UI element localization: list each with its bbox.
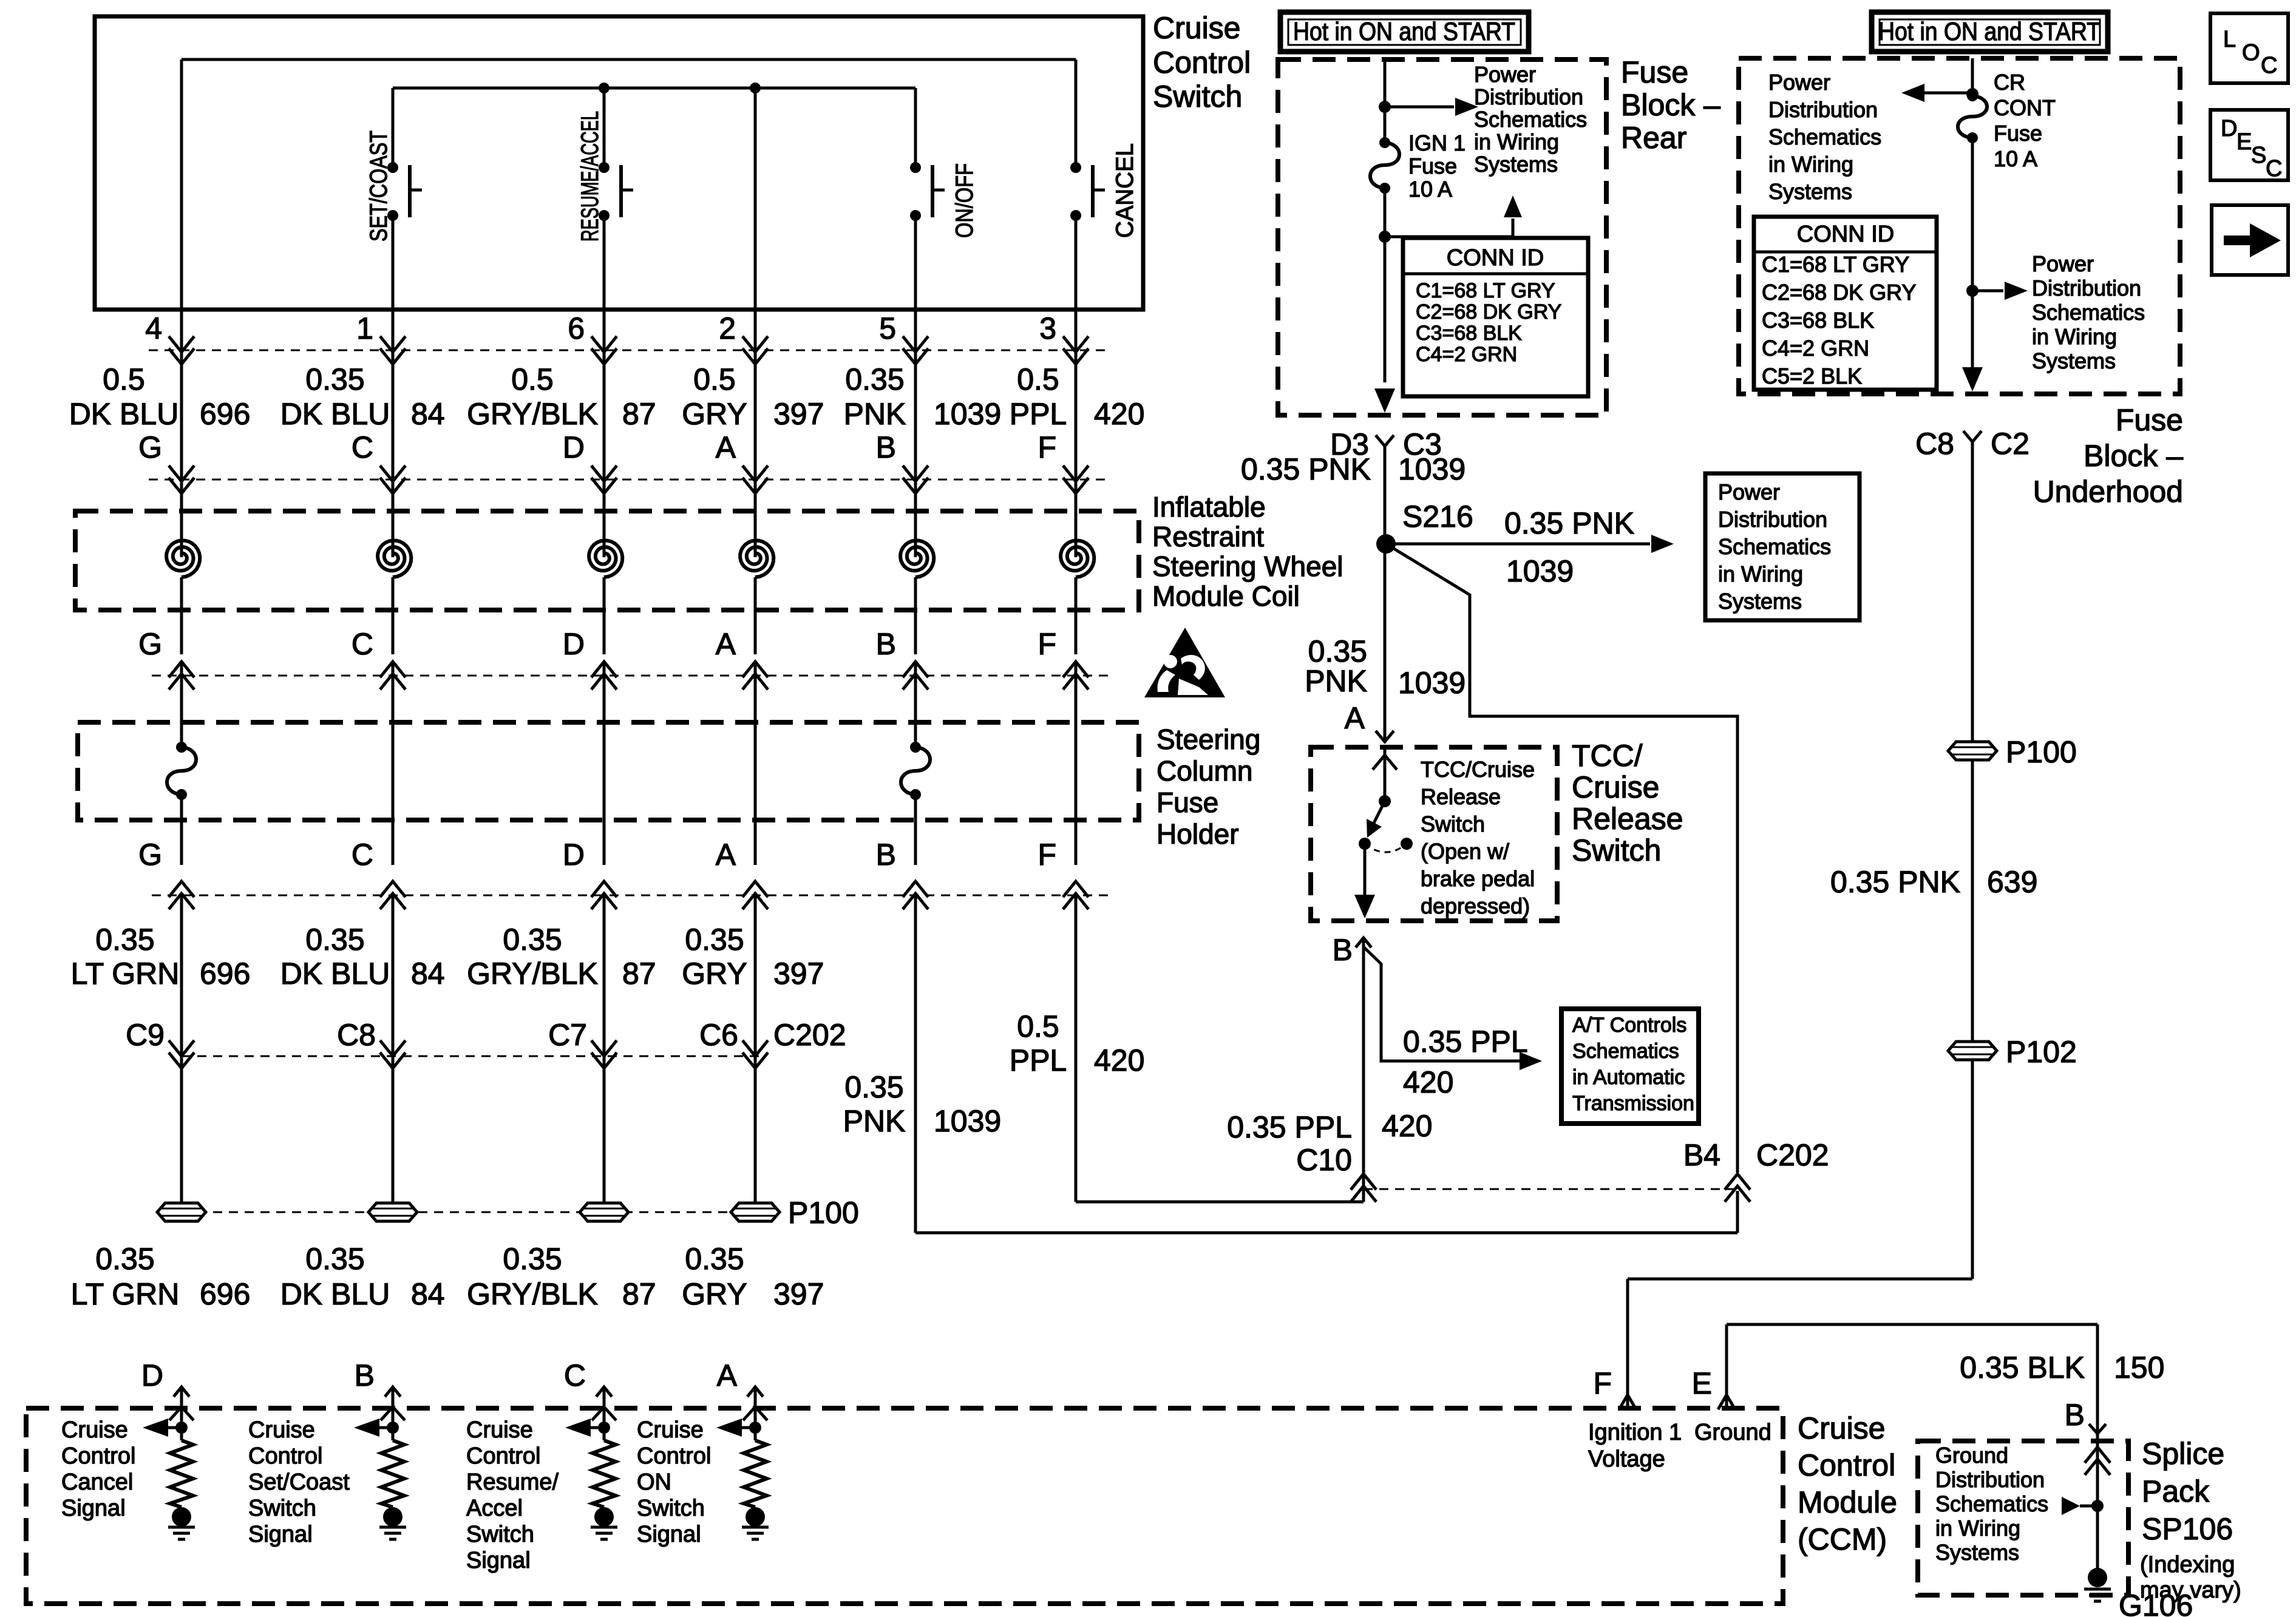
- svg-text:150: 150: [2114, 1351, 2164, 1385]
- svg-text:0.35: 0.35: [305, 923, 364, 957]
- svg-text:A: A: [716, 627, 736, 661]
- svg-text:Hot in ON and START: Hot in ON and START: [1293, 17, 1515, 46]
- wire between connectors: [392, 350, 395, 480]
- wire stub to connector: [180, 310, 183, 350]
- svg-text:P100: P100: [2006, 735, 2077, 769]
- CONN ID header separator: [1403, 273, 1588, 276]
- connector arrow down: [591, 336, 617, 364]
- wire 84 to P100: [392, 895, 395, 1212]
- svg-text:C8: C8: [337, 1018, 376, 1052]
- switch open contact: [1401, 838, 1413, 850]
- coil: [589, 540, 622, 577]
- connector arrow up: [380, 662, 406, 690]
- svg-text:1: 1: [356, 311, 373, 345]
- splice S216: [1376, 534, 1396, 554]
- wire: switch bus A (pins 4-3): [182, 58, 1076, 61]
- svg-text:87: 87: [622, 1277, 656, 1311]
- connector arrow down at C202: [742, 1040, 768, 1068]
- wire to fuse holder: [392, 662, 395, 722]
- svg-text:F: F: [1038, 430, 1056, 464]
- wire to fuse holder: [754, 662, 757, 722]
- svg-text:2: 2: [719, 311, 736, 345]
- wire to fuse holder: [914, 662, 917, 722]
- svg-text:1039: 1039: [1398, 666, 1466, 700]
- svg-text:A: A: [716, 838, 736, 872]
- wire into coil: [914, 480, 917, 557]
- svg-text:DK BLU: DK BLU: [280, 1277, 390, 1311]
- connector arrow down: [591, 466, 617, 493]
- connector dashed line below coil box: [152, 675, 1111, 677]
- connector D3/C3: [1376, 435, 1394, 446]
- svg-text:87: 87: [622, 957, 656, 991]
- svg-text:G: G: [138, 430, 162, 464]
- P100 dashed line: [182, 1212, 777, 1213]
- connector arrow down: [169, 336, 194, 364]
- fuse block underhood box: [1739, 58, 2180, 394]
- wire through fuse holder: [392, 722, 395, 865]
- wire set/coast lower: [392, 215, 395, 310]
- svg-text:F: F: [1593, 1366, 1612, 1400]
- svg-text:DK BLU: DK BLU: [280, 957, 390, 991]
- svg-text:696: 696: [200, 957, 250, 991]
- svg-text:0.35 PPL: 0.35 PPL: [1403, 1025, 1528, 1059]
- svg-text:B: B: [2065, 1398, 2085, 1432]
- wire below fuse: [180, 795, 183, 865]
- wire stub to connector: [392, 310, 395, 350]
- junction to power distribution: [1379, 101, 1391, 113]
- wire through fuse holder: [1075, 722, 1078, 865]
- svg-text:C2: C2: [1991, 427, 2029, 461]
- arrow to power distribution: [1651, 535, 1674, 553]
- wire into coil: [603, 480, 606, 557]
- svg-text:G: G: [138, 838, 162, 872]
- wire cancel lower: [1075, 215, 1078, 310]
- wire out of coil: [914, 577, 917, 654]
- svg-text:0.5: 0.5: [511, 362, 554, 396]
- wire to fuse holder: [1075, 662, 1078, 722]
- svg-text:CONN ID: CONN ID: [1447, 245, 1544, 271]
- svg-text:397: 397: [773, 397, 824, 431]
- wire ignition 1 voltage into CCM pin F: [1626, 1279, 1629, 1408]
- coil: [900, 540, 934, 577]
- svg-text:0.35: 0.35: [305, 362, 364, 396]
- wire between connectors: [1075, 350, 1078, 480]
- CCM input ON: [747, 1387, 763, 1397]
- svg-text:D: D: [563, 627, 585, 661]
- A/T controls schematics box: [1561, 1009, 1699, 1124]
- wire out of coil: [392, 577, 395, 654]
- switch arm: [1373, 801, 1385, 824]
- TCC cruise release switch box: [1311, 747, 1557, 921]
- svg-text:C: C: [352, 627, 373, 661]
- svg-text:A: A: [1345, 701, 1365, 735]
- svg-text:GRY/BLK: GRY/BLK: [467, 1277, 598, 1311]
- pass-through grommet P100: [580, 1203, 628, 1221]
- fuse block rear box: [1278, 59, 1606, 415]
- svg-text:Control: Control: [1153, 46, 1251, 80]
- svg-text:C8: C8: [1915, 427, 1954, 461]
- wire between connectors: [180, 350, 183, 480]
- switch CANCEL: [1070, 162, 1081, 173]
- ground point G106: [2088, 1568, 2107, 1587]
- svg-text:1039: 1039: [934, 397, 1001, 431]
- splice pack ground distribution box: [1918, 1441, 2128, 1595]
- wire PNK 639 from underhood to CCM F: [1971, 442, 1974, 1279]
- wire BLK 150 ground from CCM E to splice pack: [1727, 1323, 2097, 1326]
- wire ground into CCM pin E: [1725, 1324, 1728, 1408]
- wire pin4 column: [180, 59, 183, 310]
- wire 87 to P100: [603, 895, 606, 1212]
- wire branch to up arrow: [1385, 219, 1513, 237]
- svg-text:0.35: 0.35: [685, 923, 744, 957]
- wire to left arrow: [1924, 92, 1972, 95]
- svg-text:CONN ID: CONN ID: [1797, 222, 1894, 247]
- connector at TCC A: [1376, 731, 1394, 742]
- svg-text:A: A: [716, 430, 736, 464]
- arrow left to power distribution: [1901, 84, 1924, 102]
- wire on/off upper: [914, 88, 917, 168]
- svg-text:C202: C202: [773, 1018, 846, 1052]
- svg-text:D: D: [563, 838, 585, 872]
- svg-text:PPL: PPL: [1010, 397, 1067, 431]
- wire from C3 to S216: [1384, 446, 1387, 742]
- svg-text:CruiseControlCancelSignal: CruiseControlCancelSignal: [61, 1417, 136, 1521]
- connector C202 dashed line: [182, 1056, 764, 1057]
- wire out of coil: [1075, 577, 1078, 654]
- switch SET/COAST: [387, 162, 398, 173]
- wire below CR CONT fuse: [1971, 138, 1974, 373]
- switch pivot contact: [1379, 795, 1391, 807]
- wire 397 to P100: [754, 895, 757, 1212]
- svg-text:LT GRN: LT GRN: [71, 1277, 180, 1311]
- legend arrow head: [2250, 223, 2281, 257]
- hot in on and start header (rear): [1280, 12, 1529, 52]
- svg-text:B: B: [876, 838, 896, 872]
- fuse in steering column fuse holder at x=1508: [910, 742, 921, 753]
- fuse in steering column fuse holder at x=299: [176, 742, 187, 753]
- svg-text:84: 84: [411, 957, 445, 991]
- svg-text:SET/COAST: SET/COAST: [365, 131, 392, 242]
- junction on bus B at resume/accel: [599, 83, 610, 93]
- svg-text:B: B: [876, 627, 896, 661]
- svg-text:C: C: [564, 1358, 586, 1392]
- svg-text:Cruise: Cruise: [1153, 11, 1240, 45]
- wire between connectors: [914, 350, 917, 480]
- connector arrow down at C202: [169, 1040, 194, 1068]
- svg-text:B: B: [876, 430, 896, 464]
- connector arrow down: [742, 466, 768, 493]
- wire to B: [1364, 844, 1367, 897]
- connector arrow up: [1063, 662, 1089, 690]
- connector arrow down: [742, 336, 768, 364]
- svg-text:0.35: 0.35: [95, 1242, 154, 1276]
- svg-text:GRY: GRY: [682, 957, 747, 991]
- connector arrow down: [1063, 466, 1089, 493]
- wire below C10: [1362, 1191, 1365, 1202]
- svg-text:Ground: Ground: [1694, 1420, 1771, 1445]
- svg-text:5: 5: [879, 311, 896, 345]
- connector at TCC B: [1356, 938, 1371, 947]
- svg-text:GRY: GRY: [682, 397, 747, 431]
- svg-text:D: D: [141, 1358, 163, 1392]
- wire 420 PPL from fuse holder to TCC release switch: [1075, 895, 1078, 1202]
- svg-text:420: 420: [1403, 1065, 1453, 1099]
- switch travel arc: [1365, 844, 1407, 852]
- connector arrow down: [903, 466, 928, 493]
- pass-through grommet P100: [369, 1203, 417, 1221]
- CONN ID table (underhood): [1754, 217, 1937, 390]
- svg-text:B4: B4: [1683, 1138, 1720, 1172]
- svg-text:696: 696: [200, 1277, 250, 1311]
- connector arrow down at C202: [591, 1040, 617, 1068]
- connector C8/C2: [1963, 431, 1982, 442]
- svg-text:RESUME/ACCEL: RESUME/ACCEL: [577, 111, 603, 242]
- coil: [1061, 540, 1094, 577]
- connector arrow up: [591, 662, 617, 690]
- svg-text:CANCEL: CANCEL: [1112, 143, 1138, 238]
- svg-text:C: C: [352, 430, 373, 464]
- svg-text:Hot in ON and START: Hot in ON and START: [1878, 17, 2101, 46]
- coil: [740, 540, 773, 577]
- svg-text:PNK: PNK: [843, 1104, 906, 1138]
- svg-text:420: 420: [1094, 397, 1144, 431]
- svg-text:F: F: [1038, 838, 1056, 872]
- inflatable restraint steering wheel module coil box: [75, 511, 1139, 610]
- junction on bus B at pin 2: [750, 83, 761, 93]
- wire out of coil: [603, 577, 606, 654]
- svg-text:397: 397: [773, 957, 824, 991]
- connector arrow up: [742, 881, 768, 909]
- junction to power distribution (left): [1966, 88, 1978, 100]
- wire into coil: [1075, 480, 1078, 557]
- CONN ID table (rear): [1403, 238, 1588, 396]
- connector arrow up: [591, 881, 617, 909]
- svg-text:0.35 PNK: 0.35 PNK: [1830, 865, 1960, 899]
- power distribution schematics box: [1705, 473, 1860, 620]
- pass-through grommet P100 (right): [1948, 742, 1997, 760]
- wire CR CONT feed: [1971, 58, 1974, 96]
- CCM input Resume/: [596, 1387, 612, 1397]
- arrow from ground distribution: [2062, 1497, 2080, 1515]
- wire into coil: [180, 480, 183, 557]
- svg-text:87: 87: [622, 397, 656, 431]
- connector dashed line below switch: [149, 350, 1108, 351]
- svg-text:0.35: 0.35: [845, 362, 904, 396]
- wire resume/accel lower: [603, 215, 606, 310]
- connector at splice pack B: [2089, 1424, 2106, 1434]
- svg-text:GRY: GRY: [682, 1277, 747, 1311]
- svg-text:PNK: PNK: [1305, 664, 1367, 698]
- wire through fuse holder: [603, 722, 606, 865]
- svg-text:LT GRN: LT GRN: [71, 957, 180, 991]
- svg-text:G: G: [138, 627, 162, 661]
- wire to right arrow: [1972, 290, 2003, 293]
- CCM input Set/Coast: [385, 1387, 401, 1397]
- wire stub to connector: [914, 310, 917, 350]
- hot in on and start header (underhood): [1872, 12, 2108, 52]
- legend box DESC: [2210, 110, 2288, 180]
- connector dashed line above coil box: [149, 479, 1108, 481]
- svg-text:0.35: 0.35: [685, 1242, 744, 1276]
- cruise control switch box: [95, 16, 1143, 310]
- svg-text:0.35: 0.35: [503, 923, 562, 957]
- svg-text:0.5: 0.5: [693, 362, 736, 396]
- svg-text:C202: C202: [1756, 1138, 1829, 1172]
- down arrow at TCC exit: [1354, 895, 1375, 918]
- connector arrow down at C202: [380, 1040, 406, 1068]
- junction to right arrow: [1966, 285, 1978, 297]
- svg-text:420: 420: [1094, 1043, 1144, 1077]
- junction to ground distribution: [2091, 1500, 2104, 1512]
- svg-text:PPL: PPL: [1010, 1043, 1067, 1077]
- svg-text:ON/OFF: ON/OFF: [951, 163, 978, 238]
- svg-text:0.35: 0.35: [305, 1242, 364, 1276]
- switch ON/OFF: [910, 162, 921, 173]
- connector arrow down: [903, 336, 928, 364]
- connector arrow up at B4: [1725, 1174, 1750, 1202]
- svg-text:GRY/BLK: GRY/BLK: [467, 397, 598, 431]
- pass-through grommet P100: [157, 1203, 206, 1221]
- svg-text:0.5: 0.5: [1017, 1009, 1059, 1043]
- svg-text:GRY/BLK: GRY/BLK: [467, 957, 598, 991]
- wire pin2 column: [754, 88, 757, 310]
- svg-text:0.35 PNK: 0.35 PNK: [1241, 452, 1371, 486]
- wire 696 to P100: [180, 895, 183, 1212]
- wire into coil: [754, 480, 757, 557]
- svg-text:4: 4: [145, 311, 162, 345]
- svg-text:E: E: [1692, 1366, 1712, 1400]
- up arrow to systems text: [1504, 195, 1522, 217]
- wire inside splice pack: [2096, 1434, 2099, 1579]
- wire TCC B to C10: [1362, 938, 1365, 1191]
- wire below IGN1 fuse: [1384, 188, 1387, 382]
- wire above fuse: [914, 722, 917, 747]
- arrow right to power distribution: [2005, 282, 2028, 300]
- coil: [378, 540, 411, 577]
- svg-text:G106: G106: [2119, 1588, 2193, 1617]
- wire S216 diagonal branch to fuse block underhood path: [1386, 544, 1737, 1173]
- arrow to A/T controls: [1520, 1052, 1542, 1070]
- svg-text:84: 84: [411, 1277, 445, 1311]
- connector C202 dashed line (right): [1364, 1188, 1737, 1190]
- svg-text:PNK: PNK: [844, 397, 906, 431]
- connector arrow up: [1063, 881, 1089, 909]
- svg-text:0.35: 0.35: [95, 923, 154, 957]
- connector arrow up: [742, 662, 768, 690]
- svg-text:696: 696: [200, 397, 250, 431]
- svg-text:0.35: 0.35: [844, 1070, 903, 1104]
- wire on/off lower: [914, 215, 917, 310]
- svg-text:D: D: [563, 430, 585, 464]
- wire below B4: [1736, 1191, 1739, 1233]
- wire into coil: [392, 480, 395, 557]
- svg-text:B: B: [1333, 933, 1353, 967]
- svg-text:1039: 1039: [1506, 554, 1574, 588]
- svg-text:0.35 BLK: 0.35 BLK: [1960, 1351, 2085, 1385]
- svg-text:P102: P102: [2006, 1035, 2077, 1069]
- wire to power distribution arrow: [1385, 106, 1454, 109]
- svg-text:0.5: 0.5: [103, 362, 145, 396]
- connector arrow down: [380, 336, 406, 364]
- CONN ID header separator: [1754, 251, 1937, 254]
- svg-text:F: F: [1038, 627, 1056, 661]
- connector arrow up: [903, 662, 928, 690]
- wire stub to connector: [754, 310, 757, 350]
- ground symbol G106: [2084, 1588, 2111, 1591]
- pass-through grommet P100: [731, 1203, 779, 1221]
- TCC release switch internal: [1384, 747, 1387, 801]
- wire cancel upper: [1075, 59, 1078, 168]
- svg-text:DK BLU: DK BLU: [280, 397, 390, 431]
- wire above fuse: [180, 722, 183, 747]
- wire between connectors: [754, 350, 757, 480]
- wire resume/accel upper: [603, 88, 606, 168]
- wire out of coil: [754, 577, 757, 654]
- coil: [166, 540, 200, 577]
- wire 1039 PNK from fuse holder to C202 B4: [914, 895, 917, 1233]
- svg-text:84: 84: [411, 397, 445, 431]
- connector arrow down: [169, 466, 194, 493]
- wire through fuse holder: [754, 722, 757, 865]
- svg-text:3: 3: [1039, 311, 1056, 345]
- connector arrow up: [380, 881, 406, 909]
- junction to conn id arrow: [1379, 231, 1391, 243]
- legend box LOC: [2210, 13, 2288, 83]
- wire below fuse: [914, 795, 917, 865]
- svg-text:C6: C6: [699, 1018, 738, 1052]
- svg-text:0.35 PNK: 0.35 PNK: [1504, 506, 1634, 540]
- svg-text:DK BLU: DK BLU: [69, 397, 179, 431]
- connector arrow up inside splice pack: [2085, 1447, 2110, 1475]
- pass-through grommet P102: [1948, 1042, 1997, 1060]
- connector arrow up at C10: [1351, 1174, 1376, 1202]
- connector arrow up: [169, 662, 194, 690]
- svg-text:0.35: 0.35: [503, 1242, 562, 1276]
- connector arrow up: [903, 881, 928, 909]
- wire to fuse holder: [180, 662, 183, 722]
- switch RESUME/ACCEL: [599, 162, 610, 173]
- svg-text:Switch: Switch: [1153, 80, 1242, 114]
- fuse CR CONT 10A: [1967, 90, 1978, 101]
- cruise control module CCM box: [26, 1408, 1783, 1604]
- wire S216 branch to power distribution: [1386, 543, 1650, 546]
- svg-text:S216: S216: [1402, 500, 1473, 534]
- wire set/coast upper: [392, 88, 395, 168]
- wire stub to connector: [1075, 310, 1078, 350]
- wire: switch bus B (pins 1-5): [393, 87, 915, 90]
- wire branch to A/T controls: [1364, 947, 1521, 1061]
- wire ignition feed in fuse block rear: [1384, 59, 1387, 143]
- CCM input Cancel: [174, 1387, 189, 1397]
- wire between connectors: [603, 350, 606, 480]
- switch lower contact: [1359, 838, 1371, 850]
- svg-text:C7: C7: [548, 1018, 587, 1052]
- down arrow at rear box exit: [1374, 388, 1395, 413]
- svg-text:6: 6: [568, 311, 585, 345]
- svg-text:0.5: 0.5: [1017, 362, 1059, 396]
- connector dashed line below fuse holder: [152, 895, 1111, 897]
- svg-text:C9: C9: [126, 1018, 165, 1052]
- wire stub to connector: [603, 310, 606, 350]
- connector arrow down: [380, 466, 406, 493]
- down arrow at underhood box exit: [1962, 367, 1983, 392]
- svg-text:B: B: [355, 1358, 375, 1392]
- svg-text:0.35: 0.35: [1308, 634, 1367, 668]
- wire to CCM pin F: [1628, 1278, 1972, 1281]
- svg-text:C10: C10: [1296, 1143, 1352, 1177]
- switch arm arrowhead: [1367, 819, 1382, 838]
- legend box arrow: [2212, 205, 2288, 275]
